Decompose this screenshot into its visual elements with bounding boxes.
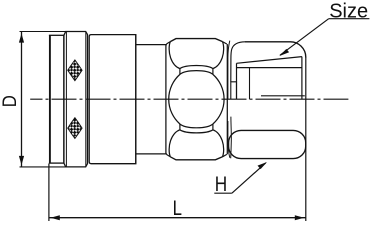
- dim D arrow up: [19, 33, 24, 42]
- label H leader arrowhead: [258, 162, 268, 169]
- knurl band chamfer line left: [65, 32, 67, 167]
- hex1 right silhouette edge: [226, 44, 228, 154]
- thread root line: [261, 95, 305, 97]
- hex2 junction whisker upper left: [228, 41, 230, 99]
- sleeve cap bottom edge: [49, 162, 64, 164]
- hex1 lower right lobe: [213, 130, 224, 157]
- hex1 top face: [170, 39, 222, 42]
- hex2 junction whisker lower left: [228, 121, 230, 158]
- main sleeve right face: [135, 35, 137, 164]
- hex1 upper corner vertical right: [212, 69, 214, 75]
- label H underline: [214, 192, 232, 194]
- bore wedge left edge: [236, 63, 238, 99]
- hex2 junction whisker lower right: [230, 117, 233, 159]
- sleeve cap top edge: [49, 34, 64, 36]
- knurl band left face: [63, 35, 65, 163]
- valve seat rect: [231, 82, 237, 99]
- knurl band outline: [64, 32, 88, 167]
- dim L arrow right: [295, 215, 304, 220]
- knurl patch upper: [68, 60, 82, 81]
- label H leader: [232, 163, 266, 193]
- knurl band chamfer line right: [85, 32, 87, 167]
- hex1 lower band top arc: [180, 130, 213, 133]
- dim D arrow down: [19, 156, 24, 165]
- hex1 left side chamfer barrel arc: [169, 74, 180, 124]
- hex1 upper chamfer arc front face: [180, 71, 213, 75]
- hex1 upper corner vertical left: [179, 69, 181, 75]
- dim L dimension line: [49, 217, 305, 219]
- hex1 right side chamfer barrel arc: [213, 74, 224, 124]
- hex1 upper band bottom arc: [180, 66, 213, 69]
- hex1 lower corner vertical right: [212, 124, 214, 130]
- dim D extension line bottom: [20, 166, 66, 168]
- bore right edge: [301, 57, 303, 100]
- hex1 lower chamfer arc front face: [180, 124, 213, 128]
- hex2 top edge: [245, 42, 306, 58]
- bore chamfer roof slant: [237, 57, 302, 64]
- svg-text:D: D: [0, 95, 20, 107]
- main sleeve body: [89, 35, 136, 164]
- hex1 left silhouette edge: [165, 44, 167, 154]
- bore top line: [237, 67, 302, 69]
- centerline: [30, 98, 348, 100]
- hex2 bottom corner band: [229, 130, 306, 158]
- sleeve cap left face: [49, 35, 51, 163]
- hex1 upper left lobe: [169, 42, 180, 69]
- body neck bottom edge: [136, 153, 167, 155]
- dim D dimension line: [21, 32, 23, 167]
- dim L arrow left: [50, 215, 59, 220]
- dim D extension line top: [20, 31, 66, 33]
- hex1 top right corner diagonal: [223, 42, 227, 44]
- hex1 lower corner vertical left: [179, 124, 181, 130]
- hex1 bottom left corner diagonal: [166, 154, 170, 156]
- svg-text:H: H: [215, 174, 227, 197]
- svg-text:L: L: [173, 197, 182, 220]
- hex1 lower left lobe: [169, 130, 180, 157]
- hex2 right face and L extension line: [305, 57, 307, 221]
- hex1 upper right lobe: [213, 42, 224, 69]
- label Size leader: [280, 19, 329, 56]
- label Size leader arrowhead: [279, 49, 289, 56]
- label Size underline: [329, 18, 370, 20]
- dim L extension line left: [48, 164, 50, 222]
- hex1 top left corner diagonal: [166, 42, 170, 44]
- svg-text:Size: Size: [329, 0, 368, 22]
- body neck top edge: [136, 44, 167, 46]
- hex2 junction whisker upper right / top edge left end: [231, 42, 245, 82]
- knurl patch lower: [68, 118, 82, 139]
- hex1 bottom right corner diagonal: [223, 154, 227, 156]
- thread start vertical: [249, 68, 251, 100]
- hex1 bottom face: [170, 157, 222, 160]
